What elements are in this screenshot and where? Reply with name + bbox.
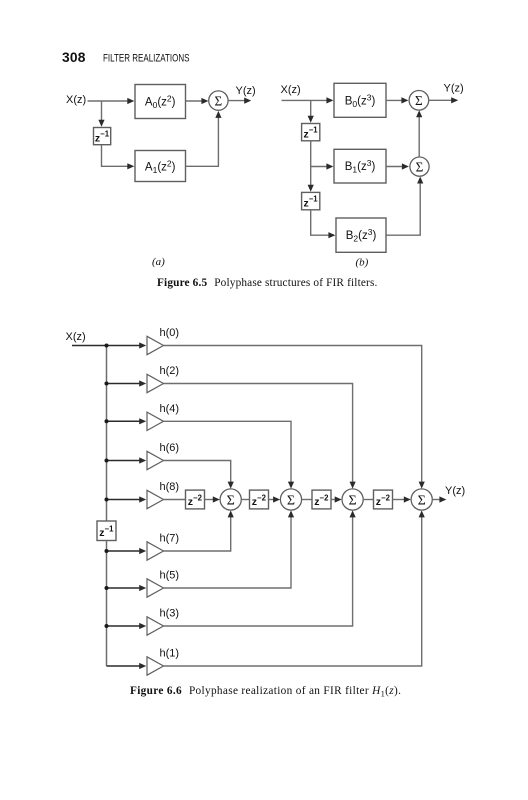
svg-text:B0(z3): B0(z3) bbox=[345, 93, 376, 110]
multiplier h(1) gain triangle bbox=[147, 657, 164, 675]
summer 1 of figure 6.6 bbox=[220, 489, 241, 510]
summer U1 of diagram (a) bbox=[209, 91, 228, 110]
multiplier h(6) gain triangle bbox=[147, 451, 164, 469]
wire delay 1 down to B1 row junction bbox=[311, 141, 328, 167]
wire delay 3 to summer 3 bbox=[331, 499, 336, 501]
svg-text:A1(z2): A1(z2) bbox=[145, 159, 176, 176]
summer 4 of figure 6.6 bbox=[411, 489, 432, 510]
wire vertical input bus lower segment bbox=[106, 541, 108, 667]
wire h(3) output to summer 3 bottom bbox=[164, 515, 353, 626]
wire X(z) input to h(0) multiplier bbox=[72, 345, 141, 347]
svg-text:h(7): h(7) bbox=[160, 533, 180, 545]
wire summer 2 up to summer 1 (b) bbox=[418, 115, 420, 157]
wire X(z) to block A0 bbox=[88, 100, 129, 102]
svg-text:FILTER REALIZATIONS: FILTER REALIZATIONS bbox=[103, 53, 190, 65]
wire summer 2 to delay 3 bbox=[302, 499, 312, 501]
wire summer 1 to Y(z) output (b) bbox=[429, 99, 453, 101]
wire h(7) output to summer 1 bottom bbox=[164, 515, 231, 551]
wire summer 4 to Y(z) output bbox=[432, 499, 440, 501]
svg-text:Figure 6.6Polyphase realizatio: Figure 6.6Polyphase realization of an FI… bbox=[130, 685, 401, 699]
summer 3 of figure 6.6 bbox=[342, 489, 363, 510]
delay z-1 block 1 of diagram (b) bbox=[302, 124, 320, 141]
svg-text:Σ: Σ bbox=[349, 494, 357, 509]
svg-text:h(0): h(0) bbox=[160, 327, 180, 339]
svg-text:X(z): X(z) bbox=[66, 331, 86, 343]
block B2(z3) bbox=[336, 218, 386, 252]
wire h(4) output to summer 2 top bbox=[164, 421, 292, 483]
wire B0 to summer 1 (b) bbox=[386, 99, 403, 101]
svg-text:Y(z): Y(z) bbox=[236, 85, 256, 97]
wire h(5) output to summer 2 bottom bbox=[164, 515, 292, 588]
delay z-1 block 2 of diagram (b) bbox=[302, 192, 320, 209]
multiplier h(7) gain triangle bbox=[147, 542, 164, 560]
multiplier h(2) gain triangle bbox=[147, 374, 164, 392]
wire bus tap to h(1) multiplier bbox=[107, 665, 141, 667]
svg-text:308: 308 bbox=[62, 50, 86, 65]
svg-text:Σ: Σ bbox=[418, 494, 426, 509]
wire B1 to summer 2 (b) bbox=[386, 166, 403, 168]
svg-text:Σ: Σ bbox=[415, 93, 423, 108]
svg-text:h(4): h(4) bbox=[160, 403, 180, 415]
wire delay 4 to summer 4 bbox=[393, 499, 405, 501]
svg-text:h(3): h(3) bbox=[160, 608, 180, 620]
svg-text:(b): (b) bbox=[356, 257, 369, 269]
wire delay z-1 to block A1 bbox=[102, 145, 129, 167]
wire A1 to summer bottom (a) bbox=[186, 116, 219, 166]
multiplier h(8) gain triangle bbox=[147, 490, 164, 508]
multiplier h(3) gain triangle bbox=[147, 617, 164, 635]
svg-text:B2(z3): B2(z3) bbox=[346, 227, 377, 244]
junction dot at h(4) tap bbox=[105, 419, 109, 423]
svg-text:X(z): X(z) bbox=[281, 84, 301, 96]
multiplier h(4) gain triangle bbox=[147, 412, 164, 430]
junction dot at h(3) tap bbox=[105, 624, 109, 628]
svg-text:Σ: Σ bbox=[215, 93, 223, 108]
block B1(z3) bbox=[334, 149, 386, 183]
block A1(z2) bbox=[135, 151, 186, 182]
wire delay 2 to summer 2 bbox=[269, 499, 275, 501]
wire bus tap to h(7) multiplier bbox=[107, 550, 141, 552]
wire summer to Y(z) output (a) bbox=[228, 100, 245, 102]
delay z-1 block of diagram (a) bbox=[94, 128, 111, 145]
svg-text:Figure 6.5Polyphase structures: Figure 6.5Polyphase structures of FIR fi… bbox=[157, 277, 377, 289]
wire branch down to delay z-1 (a) bbox=[101, 101, 103, 122]
wire bus tap to h(5) multiplier bbox=[107, 587, 141, 589]
wire vertical input bus upper segment bbox=[106, 346, 108, 522]
wire delay 2 down to block B2 bbox=[311, 210, 330, 235]
svg-text:X(z): X(z) bbox=[66, 94, 86, 106]
svg-text:h(5): h(5) bbox=[160, 570, 180, 582]
junction dot at h(8) tap bbox=[105, 498, 109, 502]
svg-text:Σ: Σ bbox=[416, 159, 424, 174]
wire X(z) to block B0 bbox=[282, 99, 328, 101]
wire delay 1 to summer 1 bbox=[205, 499, 214, 501]
wire A0 to summer (a) bbox=[186, 100, 203, 102]
svg-text:Σ: Σ bbox=[287, 494, 295, 509]
junction dot at h(7) tap bbox=[105, 549, 109, 553]
delay z-1 block on input bus bbox=[97, 521, 116, 541]
svg-text:B1(z3): B1(z3) bbox=[345, 158, 376, 175]
wire bus tap to h(2) multiplier bbox=[107, 383, 141, 385]
svg-text:h(2): h(2) bbox=[160, 365, 180, 377]
delay z-2 block 3 bbox=[312, 490, 331, 509]
wire h(8) output to delay z-2 block 1 bbox=[164, 499, 186, 501]
wire B2 to summer 2 bottom (b) bbox=[386, 182, 420, 236]
wire summer 1 to delay 2 bbox=[241, 499, 249, 501]
block A0(z2) bbox=[135, 85, 186, 119]
block B0(z3) bbox=[334, 83, 386, 117]
summer 2 of figure 6.6 bbox=[280, 489, 301, 510]
wire bus tap to h(6) multiplier bbox=[107, 460, 141, 462]
multiplier h(5) gain triangle bbox=[147, 579, 164, 597]
multiplier h(0) gain triangle bbox=[147, 336, 164, 354]
wire bus tap to h(3) multiplier bbox=[107, 625, 141, 627]
wire h(2) output to summer 3 top bbox=[164, 384, 353, 484]
wire bus tap to h(8) multiplier bbox=[107, 499, 141, 501]
wire branch down to first delay (b) bbox=[310, 100, 312, 117]
delay z-2 block 2 bbox=[250, 490, 269, 509]
wire h(1) output to summer 4 bottom bbox=[164, 515, 422, 666]
junction dot at h(0) tap bbox=[105, 344, 109, 348]
summer 2 of diagram (b) bbox=[410, 157, 429, 176]
junction dot at h(2) tap bbox=[105, 382, 109, 386]
svg-text:Y(z): Y(z) bbox=[444, 83, 464, 95]
svg-text:(a): (a) bbox=[152, 256, 165, 268]
junction dot at h(5) tap bbox=[105, 586, 109, 590]
wire bus tap to h(4) multiplier bbox=[107, 420, 141, 422]
svg-text:h(1): h(1) bbox=[160, 648, 180, 660]
summer 1 of diagram (b) bbox=[409, 91, 429, 111]
wire junction down to second delay (b) bbox=[310, 167, 312, 187]
svg-text:A0(z2): A0(z2) bbox=[145, 94, 176, 111]
svg-text:Σ: Σ bbox=[227, 494, 235, 509]
svg-text:h(8): h(8) bbox=[160, 481, 180, 493]
delay z-2 block 1 bbox=[186, 490, 205, 509]
junction dot at h(6) tap bbox=[105, 459, 109, 463]
svg-text:h(6): h(6) bbox=[160, 442, 180, 454]
svg-text:Y(z): Y(z) bbox=[445, 485, 465, 497]
wire h(6) output to summer 1 top bbox=[164, 461, 231, 484]
wire summer 3 to delay 4 bbox=[363, 499, 373, 501]
delay z-2 block 4 bbox=[374, 490, 393, 509]
wire h(0) output to summer 4 top bbox=[164, 346, 422, 484]
